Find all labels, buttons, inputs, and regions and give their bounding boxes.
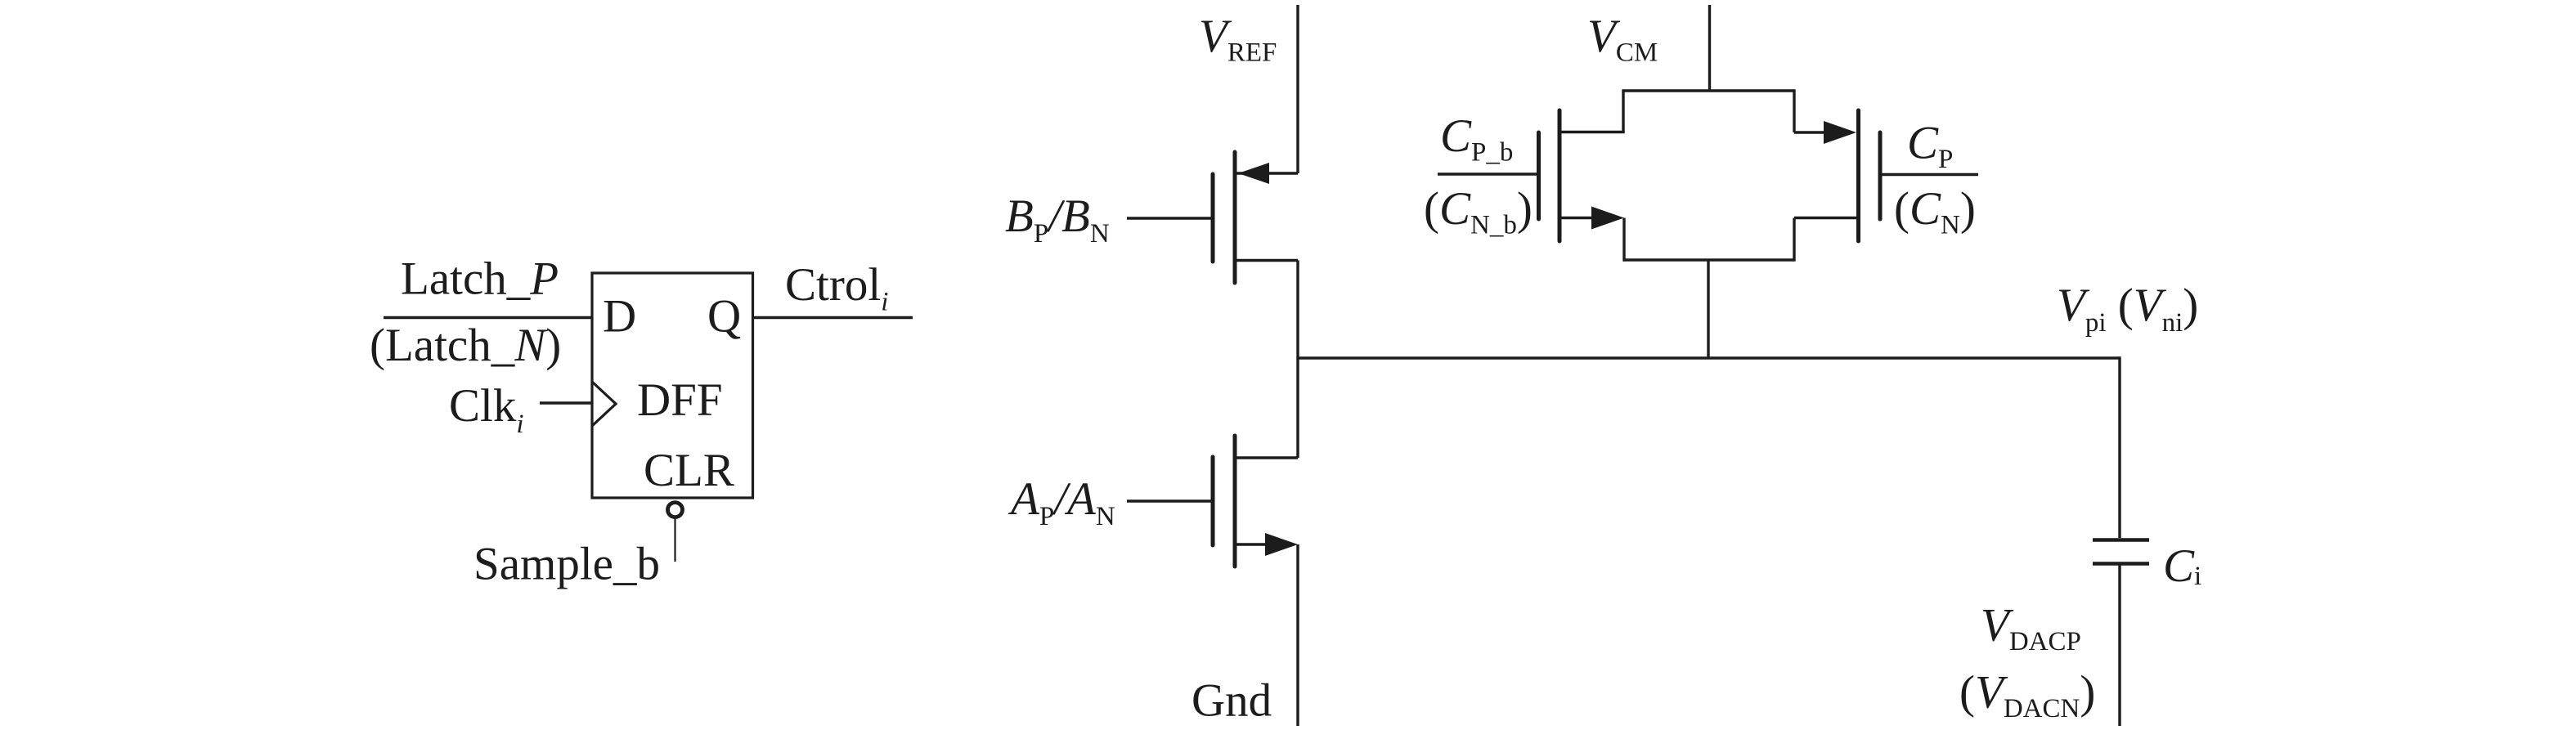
wire pair bottom-right vertical bbox=[1793, 218, 1795, 262]
svg-text:CP_b: CP_b bbox=[1440, 110, 1513, 168]
wire pair bottom center vertical bbox=[1707, 260, 1709, 358]
transistor M2 channel bar bbox=[1233, 436, 1237, 567]
svg-text:Ctroli: Ctroli bbox=[785, 259, 888, 317]
svg-text:CP: CP bbox=[1907, 118, 1953, 175]
node line Vpi bbox=[1296, 356, 2120, 359]
wire D input bbox=[384, 316, 592, 319]
svg-text:VCM: VCM bbox=[1587, 11, 1658, 68]
wire capacitor to VDACP bbox=[2118, 566, 2120, 727]
wire M1 top arm bbox=[1236, 172, 1298, 174]
svg-text:(CN_b): (CN_b) bbox=[1424, 183, 1533, 240]
svg-text:Q: Q bbox=[707, 291, 741, 343]
wire M2 top arm bbox=[1236, 456, 1298, 459]
svg-text:CLR: CLR bbox=[644, 445, 734, 496]
transistor M1 (PMOS B) gate bar bbox=[1211, 174, 1215, 262]
wire Clk input bbox=[540, 401, 592, 404]
wire pair top horizontal bbox=[1623, 89, 1794, 92]
svg-text:Clki: Clki bbox=[449, 380, 524, 439]
wire M2 drain vertical from node bbox=[1296, 358, 1299, 458]
capacitor Ci top plate bbox=[2093, 538, 2149, 541]
svg-text:Sample_b: Sample_b bbox=[473, 539, 660, 590]
transistor M4 gate bar bbox=[1878, 132, 1883, 219]
wire pair bottom-left vertical bbox=[1622, 218, 1625, 262]
svg-text:(VDACN): (VDACN) bbox=[1959, 667, 2095, 724]
svg-text:Latch_P: Latch_P bbox=[401, 253, 559, 305]
wire M1 bottom arm bbox=[1236, 259, 1298, 262]
svg-text:DFF: DFF bbox=[637, 374, 723, 426]
transistor M1 source arrow bbox=[1238, 163, 1269, 184]
wire VREF vertical bbox=[1296, 5, 1299, 173]
transistor M3 (CP_b) channel bar bbox=[1558, 110, 1562, 241]
wire pair bottom horizontal bbox=[1623, 258, 1794, 261]
wire M3 top arm bbox=[1560, 131, 1625, 133]
DFF clock triangle bbox=[592, 382, 616, 426]
capacitor Ci bottom plate bbox=[2093, 562, 2149, 565]
wire M2 bottom arm bbox=[1236, 543, 1268, 545]
wire M4 bottom arm bbox=[1794, 217, 1859, 219]
wire Gnd vertical bbox=[1296, 544, 1299, 726]
DFF U1 box bbox=[592, 273, 753, 498]
wire Q output bbox=[753, 316, 913, 319]
wire pair top-right vertical bbox=[1793, 89, 1795, 132]
svg-text:BP/BN: BP/BN bbox=[1005, 190, 1110, 249]
wire M1 gate lead bbox=[1127, 217, 1213, 219]
wire VCM vertical bbox=[1708, 5, 1711, 91]
svg-text:Gnd: Gnd bbox=[1192, 675, 1272, 727]
CLR inversion bubble bbox=[668, 503, 683, 517]
wire M4 gate lead bbox=[1880, 173, 1978, 176]
svg-text:Ci: Ci bbox=[2163, 540, 2201, 592]
wire M4 top arm bbox=[1794, 131, 1827, 133]
wire Sample_b to CLR bbox=[674, 517, 675, 562]
svg-text:D: D bbox=[603, 291, 636, 343]
svg-text:(Latch_N): (Latch_N) bbox=[370, 320, 561, 371]
wire M3 gate lead bbox=[1438, 172, 1539, 175]
transistor M4 (CP) gate arrow bbox=[1824, 121, 1856, 144]
transistor M1 channel bar bbox=[1233, 152, 1237, 283]
svg-text:(CN): (CN) bbox=[1894, 183, 1976, 240]
svg-text:VDACP: VDACP bbox=[1981, 600, 2081, 657]
wire M1 drain vertical to node bbox=[1296, 261, 1299, 359]
transistor M2 source arrow bbox=[1265, 533, 1298, 556]
wire M2 gate lead bbox=[1127, 499, 1213, 502]
wire pair top-left vertical bbox=[1622, 89, 1624, 132]
transistor M2 (NMOS A) gate bar bbox=[1211, 457, 1215, 545]
transistor M3 source arrow bbox=[1591, 207, 1624, 230]
svg-text:VREF: VREF bbox=[1199, 11, 1277, 68]
wire node to capacitor bbox=[2118, 356, 2120, 538]
svg-text:Vpi (Vni): Vpi (Vni) bbox=[2057, 280, 2198, 338]
svg-text:AP/AN: AP/AN bbox=[1008, 473, 1115, 531]
transistor M4 channel bar bbox=[1856, 110, 1860, 241]
wire M3 bottom arm bbox=[1560, 217, 1593, 219]
transistor M3 gate bar bbox=[1537, 132, 1541, 219]
